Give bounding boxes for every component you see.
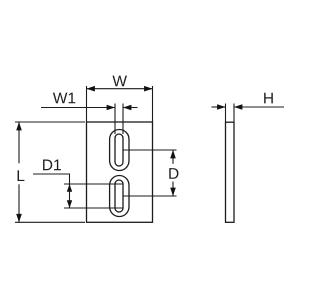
dimension L line upper segment — [18, 122, 20, 163]
side view extension line left — [225, 104, 227, 123]
dimension D extension line bottom — [123, 195, 177, 197]
dimension D line upper segment — [172, 150, 174, 164]
dimension H left lead line — [212, 106, 226, 108]
plate front view outline — [87, 122, 153, 222]
dimension W line — [87, 88, 153, 90]
dimension L extension line bottom — [15, 221, 85, 223]
slot 2 outer (bottom slotted hole, chamfer outline) — [110, 176, 129, 217]
dimension D line lower segment — [172, 182, 174, 197]
label D1 — [43, 160, 61, 171]
side view extension line right — [233, 104, 235, 123]
dimension L extension line top — [15, 121, 85, 123]
dimension D extension line top — [123, 149, 177, 151]
label W — [112, 76, 127, 87]
arrowhead L top — [16, 122, 22, 130]
arrowhead L bottom — [16, 214, 22, 222]
arrowhead W left — [87, 86, 95, 92]
label D — [169, 168, 178, 179]
dimension D1 extension line top — [64, 183, 123, 185]
arrowhead W right — [144, 86, 152, 92]
dimension D1 extension line bottom — [64, 207, 123, 209]
dimension W1 right lead line — [123, 107, 138, 109]
arrowhead W1 left — [107, 105, 115, 111]
dimension W1 extension line left — [114, 104, 116, 135]
slot 1 inner (top slotted hole) — [115, 134, 123, 166]
arrowhead D1 bottom — [67, 200, 72, 208]
dimension H right lead line — [234, 106, 284, 108]
slot 2 inner (bottom slotted hole) — [115, 180, 123, 212]
label W1 — [53, 93, 75, 104]
arrowhead H right — [234, 104, 242, 110]
dimension L line lower segment — [18, 184, 20, 222]
dimension W1 left lead line — [41, 107, 115, 109]
arrowhead H left — [217, 104, 225, 110]
dimension W extension line right — [152, 86, 154, 122]
plate side view outline — [226, 122, 235, 222]
dimension W extension line left — [86, 86, 88, 122]
label H — [264, 93, 273, 104]
arrowhead D top — [170, 150, 176, 158]
label L — [18, 170, 25, 181]
dimension D1 leader — [33, 174, 70, 208]
slot 1 outer (top slotted hole, chamfer outline) — [110, 130, 129, 171]
arrowhead D bottom — [170, 188, 176, 196]
arrowhead W1 right — [123, 105, 131, 111]
dimension W1 extension line right — [122, 104, 124, 135]
arrowhead D1 top — [67, 184, 72, 192]
